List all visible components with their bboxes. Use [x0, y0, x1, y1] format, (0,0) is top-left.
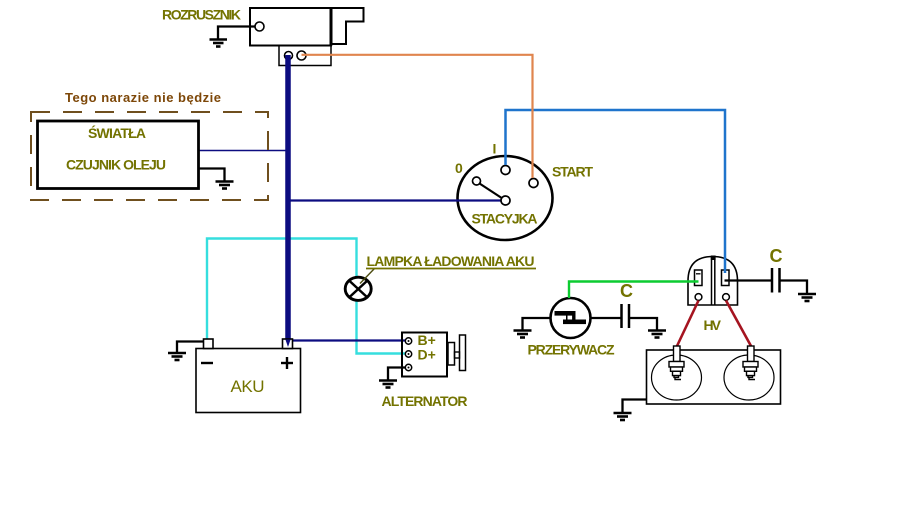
wire lights box ground: [199, 169, 225, 181]
wire blue: I terminal to coil: [506, 110, 726, 273]
coil terminal 15: [695, 270, 703, 286]
alternator shaft: [448, 343, 455, 366]
wire HV red right: [726, 301, 751, 347]
terminal START: [529, 179, 538, 188]
svg-text:I: I: [493, 141, 497, 157]
terminal common: [501, 196, 510, 205]
ground (starter): [210, 40, 228, 47]
breaker PRZERYWACZ: [551, 298, 591, 338]
svg-text:ALTERNATOR: ALTERNATOR: [382, 393, 468, 409]
ignition coil HV: [688, 257, 738, 306]
terminal D+: [405, 351, 411, 357]
ground (breaker): [514, 331, 532, 338]
ignition switch STACYJKA: [458, 156, 553, 240]
capacitor C (breaker): [622, 304, 630, 328]
cylinder left: [652, 355, 702, 400]
svg-text:0: 0: [455, 160, 463, 176]
svg-text:STACYJKA: STACYJKA: [472, 211, 538, 227]
svg-text:START: START: [552, 164, 593, 180]
wire starter ground: [218, 27, 255, 39]
wire capacitor ground: [629, 318, 657, 330]
wire breaker left ground: [523, 318, 551, 330]
minus sign: [201, 362, 213, 364]
svg-text:ROZRUSZNIK: ROZRUSZNIK: [162, 7, 241, 23]
wire HV red left: [677, 301, 699, 347]
terminal I: [501, 166, 510, 175]
starter terminal to ignition: [297, 51, 306, 60]
label underline: [366, 268, 536, 270]
starter terminal 30 (to battery): [285, 52, 293, 60]
alternator pulley: [460, 335, 466, 371]
svg-text:Tego narazie nie będzie: Tego narazie nie będzie: [65, 90, 221, 105]
spark plug left: [669, 346, 684, 380]
coil top terminal notch: [711, 256, 716, 261]
terminal ground: [405, 364, 411, 370]
leader line to lamp: [360, 269, 375, 284]
terminal B+: [405, 338, 411, 344]
ground (alternator): [379, 381, 397, 388]
lights box: [38, 121, 199, 189]
svg-text:CZUJNIK OLEJU: CZUJNIK OLEJU: [66, 157, 166, 173]
charge lamp: [345, 277, 371, 300]
ground (lights box): [216, 182, 234, 189]
svg-text:C: C: [620, 281, 633, 301]
battery - terminal: [204, 339, 214, 349]
wire green: coil to breaker: [569, 282, 699, 299]
capacitor C (coil): [772, 268, 780, 293]
ground (capacitor 1): [648, 331, 666, 338]
svg-text:HV: HV: [704, 317, 722, 333]
battery AKU: [196, 349, 301, 413]
wire navy branch to lights box: [199, 150, 288, 152]
wire orange: starter to START terminal: [302, 55, 533, 178]
coil divider: [711, 257, 713, 306]
ground (engine): [614, 413, 632, 420]
svg-text:C: C: [770, 246, 783, 266]
wire navy tip into + terminal: [285, 340, 290, 348]
spark plug right: [743, 346, 758, 380]
svg-text:D+: D+: [418, 347, 436, 363]
svg-text:LAMPKA ŁADOWANIA AKU: LAMPKA ŁADOWANIA AKU: [367, 253, 535, 269]
cylinder right: [724, 355, 774, 400]
wire breaker to capacitor: [591, 317, 622, 319]
terminal 0: [473, 177, 481, 185]
wire navy battery+ to alternator B+: [289, 339, 406, 341]
engine / spark plug box: [647, 350, 781, 404]
wire engine ground: [623, 400, 647, 413]
wire cyan: battery - to lamp to alternator D+: [207, 239, 406, 354]
wire capacitor 2 ground: [780, 281, 808, 294]
dashed box (future section): [31, 112, 268, 200]
starter body U1: [250, 8, 364, 66]
svg-text:ŚWIATŁA: ŚWIATŁA: [88, 124, 146, 141]
ground (battery): [168, 353, 186, 360]
starter terminal 50: [255, 22, 264, 31]
switch wiper: [478, 183, 504, 200]
svg-text:PRZERYWACZ: PRZERYWACZ: [528, 342, 615, 358]
wire coil to capacitor 2: [725, 279, 772, 281]
alternator: [402, 333, 447, 377]
battery + terminal: [283, 339, 293, 349]
plus sign: [281, 357, 293, 369]
ground (capacitor 2): [798, 294, 816, 301]
wire navy trunk (starter to battery +): [285, 55, 291, 345]
wire navy branch to ignition switch: [289, 199, 502, 201]
breaker contact symbol: [555, 311, 587, 324]
wire battery ground: [177, 342, 204, 353]
svg-text:AKU: AKU: [231, 377, 265, 396]
coil HV outputs: [695, 294, 702, 301]
coil terminal 1: [722, 270, 730, 286]
wire alternator ground: [388, 368, 406, 380]
